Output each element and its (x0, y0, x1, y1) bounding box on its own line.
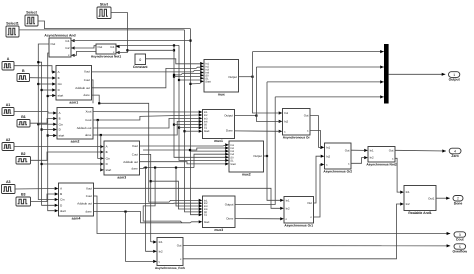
wire v1 branch mux S0 (174, 76, 201, 78)
wire v2 branch mux S1 (179, 79, 201, 81)
wire v3 branch mux1 Start (185, 130, 200, 132)
svg-text:Done: Done (226, 129, 233, 133)
wire mux2 In2 feed (143, 148, 226, 150)
wire asm2 done branch asm3 start (101, 135, 103, 170)
wire mux2 Output riser up (267, 82, 281, 200)
svg-text:Asynchronous Or1: Asynchronous Or1 (284, 223, 313, 227)
block mux2 (229, 141, 264, 176)
svg-text:done: done (83, 93, 90, 97)
svg-text:Out: Out (304, 114, 309, 118)
svg-text:start: start (106, 168, 112, 172)
svg-text:In2: In2 (65, 46, 69, 50)
wire Not1 lower out to And c (72, 52, 97, 56)
svg-text:In1: In1 (110, 45, 114, 49)
wire Fork c to Realable In2 (183, 204, 401, 259)
svg-text:In2: In2 (326, 154, 330, 158)
block mux3 (203, 196, 236, 232)
Asynchronous Or1 port labels (280, 198, 312, 221)
wire Or2 Out to Not2 In1 (351, 149, 365, 151)
pulse generator B1 (17, 115, 30, 127)
svg-text:start: start (60, 209, 66, 213)
svg-text:Start: Start (100, 3, 109, 7)
svg-text:A3: A3 (6, 180, 11, 184)
wire mux3 Output riser (235, 97, 275, 205)
svg-text:In2: In2 (370, 156, 374, 160)
wire Select top line (38, 21, 191, 29)
wire asm3 done to Fork In2 (146, 168, 154, 252)
block asm2 (57, 108, 93, 144)
svg-text:D: D (59, 128, 61, 132)
wire start bus branch asm2 (48, 135, 54, 137)
svg-text:start: start (58, 94, 64, 98)
svg-text:Output: Output (253, 154, 262, 158)
svg-text:Realable And1: Realable And1 (408, 211, 431, 215)
wire v1 branch mux1 S0 (174, 124, 199, 126)
svg-text:asm1: asm1 (69, 100, 78, 104)
wire Fork Out to Overflow port (183, 244, 450, 247)
svg-text:start: start (59, 134, 65, 138)
svg-text:Done: Done (226, 217, 233, 221)
wire asm2 Xout to mux1 In1 (93, 111, 199, 113)
wire Or1 c to Or2 c (314, 165, 322, 218)
wire asm1 Addsub to mux In2 (92, 67, 201, 88)
svg-text:mux1: mux1 (214, 139, 223, 143)
mux port labels (200, 62, 237, 84)
wire D bus branch asm2 (42, 129, 54, 131)
wire B2 to asm3 B (31, 152, 101, 160)
Asynchronous_Fork port labels (153, 240, 182, 263)
svg-text:Out1: Out1 (428, 196, 435, 200)
svg-text:4: 4 (454, 150, 456, 154)
svg-text:Xout: Xout (85, 110, 91, 114)
wire bar input 2 (256, 65, 383, 68)
constant block Constant (133, 54, 149, 69)
wire v4 branch And In1 (72, 40, 191, 42)
svg-text:A2: A2 (6, 138, 11, 142)
wire asm4 Cout to Cout port (94, 196, 451, 235)
block asm1 (56, 66, 92, 105)
wire mux3 Done to Or1 c (235, 218, 281, 220)
Mux vector bar (384, 44, 389, 104)
pulse generator B (17, 69, 30, 82)
wire Or1 Out to Or2 In2 (314, 156, 322, 203)
svg-text:Cout: Cout (86, 194, 92, 198)
block Realable And1 U7 (404, 186, 436, 215)
wire B1 to asm2 B (30, 119, 53, 124)
Asynchronous Not2 port labels (364, 148, 394, 160)
svg-text:In1: In1 (65, 39, 69, 43)
svg-text:Output: Output (449, 78, 461, 82)
wire asm1 Cout down (92, 80, 94, 103)
wire asm3 done line (140, 167, 195, 169)
block asm4 (59, 183, 94, 220)
svg-text:Cout: Cout (84, 78, 90, 82)
svg-text:Asynchronous Not1: Asynchronous Not1 (91, 54, 122, 58)
svg-text:Asynchronous Or: Asynchronous Or (283, 135, 311, 139)
wire Or2 c to Not2 c (351, 158, 365, 164)
svg-text:Select1: Select1 (6, 22, 19, 26)
asm1 port labels (52, 69, 90, 97)
svg-text:Cin: Cin (60, 198, 65, 202)
wire Start branch to v1 (127, 49, 174, 51)
svg-text:asm3: asm3 (117, 175, 126, 179)
wire D bus branch asm3 (42, 163, 101, 165)
svg-text:Xout: Xout (84, 69, 90, 73)
wire asm3 done to mux3 In3 (176, 168, 199, 206)
wire bar input 3 (267, 80, 384, 83)
svg-text:Out: Out (389, 148, 394, 152)
svg-text:Cout: Cout (456, 238, 465, 242)
output port Done (453, 196, 463, 206)
wire mux In4 feed (173, 74, 201, 76)
svg-text:In2: In2 (159, 249, 163, 253)
wire Constant to mux In1 (146, 59, 201, 64)
svg-text:Out: Out (345, 148, 350, 152)
block mux1 (203, 110, 235, 143)
svg-text:Addsub out: Addsub out (77, 126, 92, 130)
svg-text:In1: In1 (406, 190, 410, 194)
svg-text:Zero: Zero (451, 154, 458, 158)
Not1 input arrows (116, 45, 120, 54)
wire mux1 Output riser (256, 67, 280, 121)
wire asm3 Xout to mux2 In1 (140, 145, 227, 146)
svg-text:Asynchronous And: Asynchronous And (44, 33, 75, 37)
output port Output (449, 72, 461, 82)
wire asm2 Cout to mux1 In2 and asm3 Cin (93, 115, 199, 121)
svg-text:In1: In1 (370, 149, 374, 153)
mux3 port labels (199, 199, 234, 224)
block mux (204, 60, 239, 97)
wire asm4 done to Fork c (126, 212, 154, 262)
wire asm2 Addsub to mux1 In3 (93, 118, 199, 128)
svg-text:A1: A1 (6, 103, 11, 107)
asm4 port labels (55, 186, 93, 213)
svg-text:Start: Start (230, 163, 236, 166)
Asynchronous Or port labels (279, 111, 309, 133)
wire Realable Out1 to Done port (436, 197, 450, 200)
svg-text:B2: B2 (21, 152, 26, 156)
svg-text:Constant: Constant (133, 65, 149, 69)
wire Select1 top line (19, 29, 185, 31)
svg-text:A: A (59, 111, 61, 115)
svg-text:Addsub out: Addsub out (75, 86, 90, 90)
pulse generator A (2, 57, 14, 70)
svg-text:Out: Out (98, 45, 103, 49)
wire asm4 Addsub to mux3 In2 (94, 202, 200, 204)
svg-text:mux3: mux3 (214, 228, 223, 232)
Realable And1 port labels (400, 190, 435, 206)
wire start bus branch asm1 (48, 95, 53, 98)
svg-text:Asynchronous_Fork: Asynchronous_Fork (155, 266, 185, 270)
wire And c to start bus (47, 53, 55, 211)
mux2 port labels (225, 143, 262, 166)
svg-text:Asynchronous Or2: Asynchronous Or2 (323, 169, 352, 173)
wire asm1 Xout to mux In3 (92, 70, 201, 72)
block Asynchronous And U1 (44, 33, 75, 57)
svg-text:A: A (60, 187, 62, 191)
wire Cin bus branch asm1 (38, 83, 52, 85)
wire D bus branch asm1 (42, 89, 53, 91)
wire mux2 In3 feed (189, 149, 226, 151)
wire asm3 Cout to Fork In1 (140, 154, 154, 242)
wire Or Out to Or2 In1 (310, 116, 321, 148)
Asynchronous Or2 port labels (321, 146, 350, 167)
wire asm2 done to mux1 In4 and asm3 start (93, 122, 199, 137)
wire mux1 Done to Or c (235, 130, 281, 132)
wire And Out to Cin bus (37, 44, 55, 200)
output port Cout (454, 232, 466, 242)
wire Cin bus branch asm2 (38, 123, 53, 125)
svg-text:done: done (85, 210, 92, 214)
svg-text:5: 5 (459, 245, 461, 249)
pulse generator B3 (16, 193, 31, 207)
pulse generator Start (97, 3, 111, 19)
wire asm3 done loop (143, 168, 182, 223)
svg-text:Cin: Cin (59, 122, 64, 126)
wire A to asm1 A (14, 66, 53, 72)
svg-text:Start: Start (204, 221, 210, 224)
svg-text:Asynchronous Not2: Asynchronous Not2 (366, 162, 397, 166)
wire B to asm1 B (30, 77, 53, 79)
svg-text:S1: S1 (204, 214, 208, 217)
And input arrows (71, 39, 75, 57)
svg-text:B3: B3 (21, 193, 26, 197)
svg-text:1: 1 (453, 73, 455, 77)
svg-text:In2: In2 (284, 120, 288, 124)
svg-text:Output: Output (224, 114, 233, 118)
svg-text:In2: In2 (406, 202, 410, 206)
svg-text:3: 3 (459, 233, 461, 237)
svg-text:D: D (58, 88, 60, 92)
block Asynchronous Not2 U6 (366, 147, 397, 167)
svg-text:Cin: Cin (58, 82, 63, 86)
wire mux Output riser (253, 52, 281, 113)
svg-text:In2: In2 (286, 206, 290, 210)
wire asm3 done to mux2 In4 (194, 154, 226, 167)
wire asm3 Addsub to mux2 Start (140, 162, 226, 164)
svg-text:B: B (59, 117, 61, 121)
svg-text:mux: mux (218, 92, 225, 96)
svg-text:In1: In1 (326, 146, 330, 150)
wire vertical v1 (173, 45, 226, 157)
svg-text:Xout: Xout (86, 186, 92, 190)
svg-text:A: A (7, 57, 10, 61)
svg-text:Addsub out: Addsub out (123, 160, 138, 164)
wire v4 branch mux Start (191, 83, 201, 85)
wire A3 to asm4 A (15, 188, 55, 191)
svg-text:B: B (58, 76, 60, 80)
output port Overflow (453, 244, 468, 254)
svg-text:S1: S1 (204, 127, 208, 130)
svg-text:Out: Out (177, 244, 182, 248)
wire Not2 Out to Zero port (395, 149, 446, 152)
wire asm4 done to mux3 Start (94, 211, 199, 223)
svg-text:Xout: Xout (132, 144, 138, 148)
wire vertical v2 (178, 45, 226, 160)
pulse generator Select (25, 11, 38, 27)
asm3 port labels (100, 144, 138, 172)
pulse generator Select1 (6, 22, 19, 38)
pulse generator A3 (2, 180, 16, 194)
svg-text:A: A (58, 70, 60, 74)
svg-text:B: B (60, 192, 62, 196)
output port Zero (449, 148, 461, 158)
svg-text:D: D (60, 203, 62, 207)
wire bar input 4 (275, 95, 384, 98)
block Asynchronous Or2 U5 (323, 143, 352, 173)
wire Start to Not1 c (111, 13, 129, 53)
wire Not1 In1 line (117, 44, 180, 46)
wire Or c to Or2 In1 area (310, 131, 321, 149)
svg-text:Overflow: Overflow (453, 250, 468, 254)
svg-text:B1: B1 (21, 115, 26, 119)
svg-text:asm2: asm2 (71, 139, 80, 143)
wire A2 to asm3 A (14, 146, 101, 148)
wire Select1 vertical v3 (183, 30, 199, 212)
wire bar output to Output port (389, 73, 446, 76)
svg-text:Start: Start (205, 80, 211, 83)
svg-text:Cout: Cout (132, 153, 138, 157)
svg-text:A: A (106, 145, 108, 149)
wire B3 to asm4 B (31, 194, 55, 202)
svg-text:mux2: mux2 (242, 172, 251, 176)
wire mux2 Output riser and Or1 In1 feed (264, 155, 269, 157)
block Asynchronous_Fork U8 (155, 238, 185, 270)
wire mux1 Output to bar and Or In2 (235, 115, 258, 117)
wire asm4 Xout to Or1 In2 (94, 188, 281, 208)
svg-text:Select: Select (26, 11, 37, 15)
wire Not1 Out to And In2 (72, 46, 97, 48)
wire D bus (37, 61, 55, 205)
mux1 port labels (199, 110, 234, 133)
svg-text:0: 0 (139, 58, 141, 62)
svg-text:B: B (106, 150, 108, 154)
wire mux Output to bar and Or In1 (239, 76, 254, 78)
svg-text:Cin: Cin (106, 157, 111, 161)
pulse generator A1 (2, 103, 14, 116)
svg-text:In1: In1 (286, 198, 290, 202)
wire asm1 done chain to mux3 In1 (92, 95, 200, 202)
pulse generator A2 (2, 138, 14, 151)
wire Select vertical v4 (189, 29, 199, 215)
pulse generator B2 (16, 152, 31, 164)
block Asynchronous Or1 U4 (284, 197, 314, 228)
svg-text:D: D (106, 162, 108, 166)
svg-text:In1: In1 (159, 240, 163, 244)
svg-text:Out: Out (51, 42, 56, 46)
wire asm3 Cout branch mux3 In4 (151, 181, 199, 209)
svg-text:2: 2 (457, 197, 459, 201)
wire Not2 c to Realable In1 (395, 158, 401, 192)
svg-text:done: done (131, 167, 138, 171)
wire v2 branch mux1 S1 (179, 127, 199, 129)
block asm3 (104, 141, 140, 179)
block Asynchronous Or U3 (283, 109, 311, 140)
svg-text:Cout: Cout (85, 118, 91, 122)
svg-text:Out: Out (307, 201, 312, 205)
svg-text:Output: Output (228, 75, 237, 79)
svg-text:Start: Start (204, 130, 210, 133)
block Asynchronous Not1 U2 (91, 44, 122, 58)
svg-text:Addsub out: Addsub out (77, 202, 92, 206)
svg-text:B: B (22, 69, 25, 73)
wire asm2 Cout branch asm3 Cin (98, 120, 101, 158)
svg-text:Output: Output (225, 203, 234, 207)
wire bar input 1 (253, 50, 384, 53)
svg-text:done: done (85, 133, 92, 137)
svg-text:Done: Done (454, 201, 463, 205)
svg-text:asm4: asm4 (72, 216, 81, 220)
asm2 port labels (53, 110, 92, 138)
wire A1 to asm2 A (14, 112, 53, 114)
svg-text:In1: In1 (284, 111, 288, 115)
